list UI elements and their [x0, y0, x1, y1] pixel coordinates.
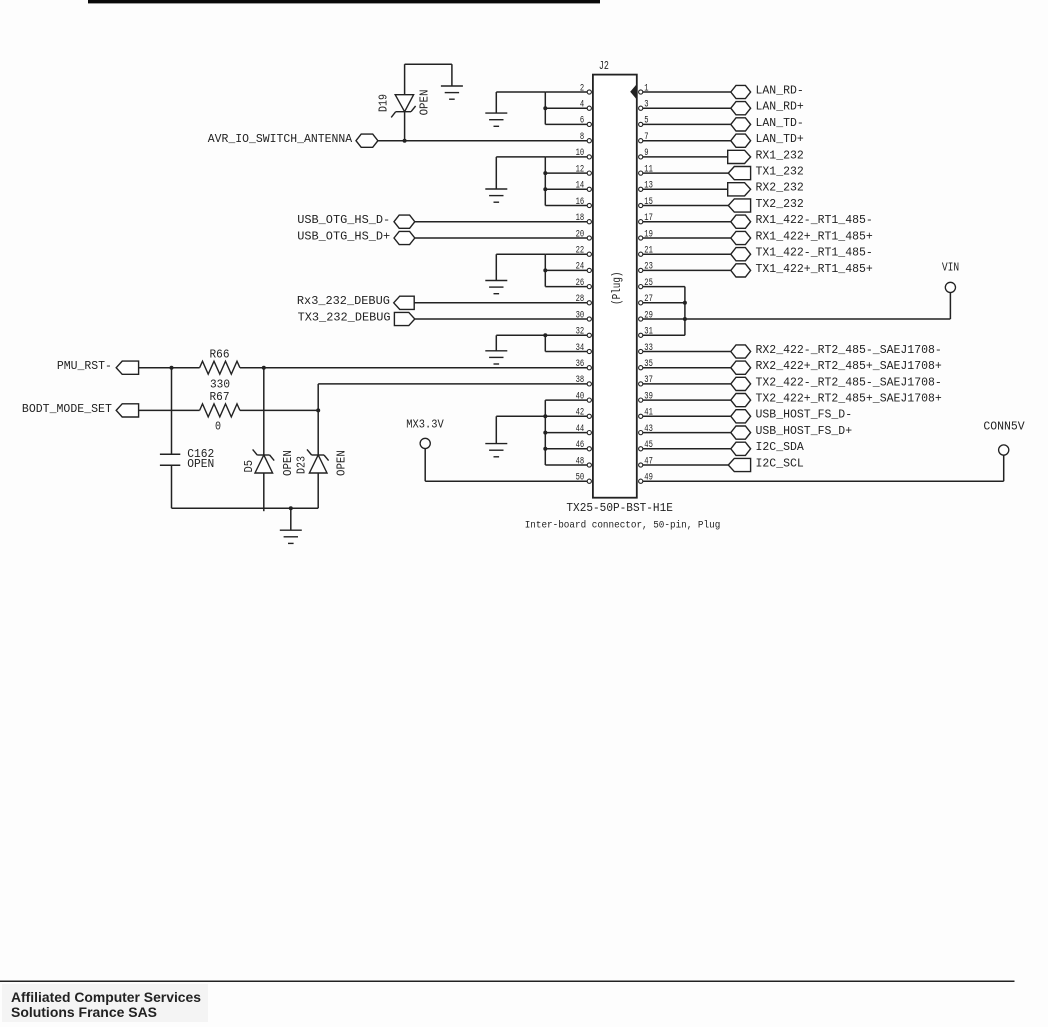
J2 pin 19 — [639, 229, 653, 240]
port I2C_SCL — [728, 458, 750, 471]
svg-text:USB_OTG_HS_D-: USB_OTG_HS_D- — [297, 213, 390, 227]
port TX1_422+_RT1_485+ — [731, 264, 751, 277]
wire BODT_MODE_SET to R67 — [139, 409, 200, 411]
J2 pin 8 — [580, 132, 592, 143]
wire PMU_RST- to R66 — [139, 367, 200, 369]
port USB_OTG_HS_D+ — [394, 231, 415, 244]
svg-text:TX1_232: TX1_232 — [756, 165, 804, 179]
wire pin 26 stub — [545, 286, 587, 288]
resistor R67 — [200, 404, 240, 417]
value 0 — [215, 419, 221, 433]
wire pin 12 stub — [545, 172, 587, 174]
wire pin 16 stub — [545, 205, 587, 207]
diode D23 — [307, 449, 329, 473]
title Solutions France SAS — [11, 1004, 157, 1020]
wire pin 17 to port RX1_422-_RT1_485- — [643, 221, 731, 223]
wire pin 21 to port TX1_422-_RT1_485- — [643, 253, 731, 255]
svg-text:LAN_TD-: LAN_TD- — [756, 116, 804, 130]
wire VIN bus to VIN — [685, 318, 951, 320]
svg-text:MX3.3V: MX3.3V — [406, 418, 444, 432]
ground GND-B — [485, 157, 507, 202]
junction bus E pin 42 — [543, 414, 547, 418]
ground GND-C — [485, 254, 507, 294]
J2 pin 44 — [576, 424, 592, 435]
connector J2 body — [593, 75, 637, 498]
junction bus E pin 46 — [543, 447, 547, 451]
port TX1_422-_RT1_485- — [731, 248, 751, 261]
J2 pin 27 — [639, 294, 653, 305]
label R67 — [210, 390, 230, 404]
J2 pin 34 — [576, 343, 592, 354]
wire pin 3 to port LAN_RD+ — [643, 107, 731, 109]
wire pin 27 stub to VIN bus — [643, 302, 685, 304]
svg-text:0: 0 — [215, 419, 221, 433]
label RX1_422+_RT1_485+ — [756, 229, 873, 243]
wire C162 top — [171, 368, 173, 455]
wire pin 10 stub — [545, 156, 587, 158]
wire pin 7 to port LAN_TD+ — [643, 140, 731, 142]
svg-text:RX1_422+_RT1_485+: RX1_422+_RT1_485+ — [756, 229, 873, 243]
svg-text:RX2_232: RX2_232 — [756, 181, 804, 195]
J2 pin 1 — [639, 83, 649, 94]
wire pin 5 to port LAN_TD- — [643, 123, 731, 125]
wire bus A to ground — [496, 91, 545, 93]
junction VIN bus pin 29 — [683, 317, 687, 321]
wire pin 44 stub — [545, 432, 587, 434]
port AVR_IO_SWITCH_ANTENNA — [356, 134, 378, 147]
J2 pin 10 — [576, 148, 592, 159]
label BODT_MODE_SET — [22, 402, 112, 416]
port RX1_422-_RT1_485- — [731, 215, 751, 228]
label D23 — [295, 456, 309, 474]
J2 pin 4 — [580, 100, 592, 111]
port PMU_RST- — [116, 361, 138, 374]
svg-text:PMU_RST-: PMU_RST- — [57, 359, 112, 373]
svg-text:LAN_RD-: LAN_RD- — [756, 83, 804, 97]
J2 pin 45 — [639, 440, 653, 451]
J2 pin 9 — [639, 148, 649, 159]
J2 pin 48 — [576, 456, 592, 467]
wire pin 33 to port RX2_422-_RT2_485-_SAEJ1708- — [643, 351, 731, 353]
J2 pin 18 — [576, 213, 592, 224]
svg-text:CONN5V: CONN5V — [983, 419, 1025, 433]
wire pin 45 to port I2C_SDA — [643, 448, 731, 450]
J2 pin 38 — [576, 375, 592, 386]
svg-text:J2: J2 — [599, 59, 609, 73]
port TX2_422+_RT2_485+_SAEJ1708+ — [731, 394, 751, 407]
wire bus B to ground — [496, 156, 545, 158]
J2 pin 23 — [639, 262, 653, 273]
gnd bus D vertical — [544, 335, 546, 351]
junction C162 tap — [170, 366, 174, 370]
label LAN_TD- — [756, 116, 804, 130]
label RX2_422-_RT2_485-_SAEJ1708- — [756, 343, 942, 357]
wire pin 32 stub — [545, 334, 587, 336]
svg-text:Inter-board connector, 50-pin,: Inter-board connector, 50-pin, Plug — [525, 520, 721, 532]
wire Rx3_232_DEBUG to pin 28 — [414, 302, 587, 304]
svg-text:VIN: VIN — [942, 261, 959, 275]
label D23 OPEN — [335, 450, 349, 476]
svg-text:Rx3_232_DEBUG: Rx3_232_DEBUG — [297, 294, 390, 308]
svg-text:AVR_IO_SWITCH_ANTENNA: AVR_IO_SWITCH_ANTENNA — [208, 132, 353, 146]
wire pin 48 stub — [545, 464, 587, 466]
svg-text:Solutions France SAS: Solutions France SAS — [11, 1004, 157, 1020]
label R66 — [210, 347, 230, 361]
wire riser to pin 38 — [318, 383, 587, 385]
wire bus C to ground — [496, 253, 545, 255]
refdes J2 — [599, 59, 609, 73]
wire pin 22 stub — [545, 253, 587, 255]
J2 pin 42 — [576, 408, 592, 419]
svg-text:RX1_422-_RT1_485-: RX1_422-_RT1_485- — [756, 213, 873, 227]
power CONN5V — [983, 419, 1025, 455]
VIN bus vertical — [684, 287, 686, 336]
J2 pin 24 — [576, 262, 592, 273]
svg-text:BODT_MODE_SET: BODT_MODE_SET — [22, 402, 112, 416]
wire ground rail — [172, 507, 319, 509]
label RX2_422+_RT2_485+_SAEJ1708+ — [756, 359, 942, 373]
junction bus A pin 4 — [543, 106, 547, 110]
wire pin 41 to port USB_HOST_FS_D- — [643, 415, 731, 417]
J2 pin 46 — [576, 440, 592, 451]
svg-text:Affiliated Computer Services: Affiliated Computer Services — [11, 989, 201, 1005]
resistor R66 — [200, 361, 240, 374]
J2 pin 32 — [576, 327, 592, 338]
wire USB_OTG_HS_D+ to pin 20 — [415, 237, 587, 239]
label USB_OTG_HS_D- — [297, 213, 390, 227]
svg-text:D5: D5 — [242, 460, 256, 473]
wire D23 anode to rail — [317, 473, 319, 508]
label D5 — [242, 460, 256, 473]
wire R67 to D23 riser — [240, 409, 318, 411]
power VIN — [942, 261, 959, 293]
svg-text:OPEN: OPEN — [418, 90, 432, 116]
junction VIN bus pin 27 — [683, 301, 687, 305]
junction bus B pin 12 — [543, 171, 547, 175]
label D5 OPEN — [281, 450, 295, 476]
gnd bus E vertical — [544, 400, 546, 465]
label TX2_232 — [756, 197, 804, 211]
svg-text:TX25-50P-BST-H1E: TX25-50P-BST-H1E — [566, 501, 673, 515]
ground GND-D19 — [441, 64, 463, 99]
J2 description Inter-board connector, 50-pin, Plug — [525, 520, 721, 532]
svg-text:TX1_422-_RT1_485-: TX1_422-_RT1_485- — [756, 246, 873, 260]
junction D19 anode tap — [403, 139, 407, 143]
junction D5 tap — [262, 366, 266, 370]
label TX2_422+_RT2_485+_SAEJ1708+ — [756, 392, 942, 406]
junction rail ground tee — [289, 506, 293, 510]
wire bus E to ground — [496, 415, 545, 417]
J2 pin 6 — [580, 116, 592, 127]
wire pin 1 to port LAN_RD- — [643, 91, 731, 93]
label USB_OTG_HS_D+ — [297, 229, 390, 243]
J2 pin 35 — [639, 359, 653, 370]
label RX1_232 — [756, 148, 804, 162]
label I2C_SDA — [756, 440, 805, 454]
svg-text:D19: D19 — [376, 94, 390, 112]
wire D5 anode to rail — [263, 473, 265, 511]
J2 pin 21 — [639, 246, 653, 257]
label Rx3_232_DEBUG — [297, 294, 390, 308]
svg-text:TX2_422-_RT2_485-_SAEJ1708-: TX2_422-_RT2_485-_SAEJ1708- — [756, 375, 942, 389]
J2 pin 17 — [639, 213, 653, 224]
J2 pin 29 — [639, 310, 653, 321]
junction bus C pin 24 — [543, 268, 547, 272]
wire pin 49 to CONN5V — [643, 455, 1004, 481]
wire pin 2 stub — [545, 91, 587, 93]
value 330 — [210, 377, 230, 391]
port TX3_232_DEBUG — [394, 312, 414, 325]
svg-text:TX2_422+_RT2_485+_SAEJ1708+: TX2_422+_RT2_485+_SAEJ1708+ — [756, 392, 942, 406]
svg-text:TX1_422+_RT1_485+: TX1_422+_RT1_485+ — [756, 262, 873, 276]
label D19 — [376, 94, 390, 112]
label C162 — [187, 448, 214, 461]
J2 pin 47 — [639, 456, 653, 467]
wire pin 25 stub to VIN bus — [643, 286, 685, 288]
junction bus D pin 32 — [543, 333, 547, 337]
J2 pin 40 — [576, 391, 592, 402]
J2 pin 5 — [639, 116, 649, 127]
label RX1_422-_RT1_485- — [756, 213, 873, 227]
svg-text:R66: R66 — [210, 347, 230, 361]
wire VIN stem — [949, 293, 951, 320]
diode D19 — [391, 95, 415, 118]
label LAN_TD+ — [756, 132, 804, 146]
wire pin 11 to port TX1_232 — [643, 172, 728, 174]
J2 pin 50 — [576, 473, 592, 484]
ground GND-D — [485, 335, 507, 364]
wire pin 47 to port I2C_SCL — [643, 464, 728, 466]
wire pin 15 to port TX2_232 — [643, 205, 728, 207]
port Rx3_232_DEBUG — [394, 296, 415, 309]
top border rule — [88, 0, 600, 3]
wire D5 cathode riser — [263, 368, 265, 455]
J2 pin 37 — [639, 375, 653, 386]
wire pin 9 to port RX1_232 — [643, 156, 728, 158]
J2 pin 31 — [639, 327, 653, 338]
port LAN_RD- — [731, 85, 751, 98]
junction bus B pin 14 — [543, 187, 547, 191]
J2 pin 15 — [639, 197, 653, 208]
svg-text:RX2_422+_RT2_485+_SAEJ1708+: RX2_422+_RT2_485+_SAEJ1708+ — [756, 359, 942, 373]
svg-text:R67: R67 — [210, 390, 230, 404]
port TX2_232 — [728, 199, 750, 212]
J2 pin 25 — [639, 278, 653, 289]
port BODT_MODE_SET — [116, 404, 138, 417]
svg-text:I2C_SCL: I2C_SCL — [756, 456, 804, 470]
J2 pin 11 — [639, 164, 653, 175]
J2 pin 28 — [576, 294, 592, 305]
J2 pin 14 — [576, 181, 592, 192]
junction bus E pin 44 — [543, 431, 547, 435]
J2 pin 13 — [639, 181, 653, 192]
label RX2_232 — [756, 181, 804, 195]
svg-text:RX1_232: RX1_232 — [756, 148, 804, 162]
ground GND-A — [485, 92, 507, 126]
J2 pin 22 — [576, 246, 592, 257]
label TX2_422-_RT2_485-_SAEJ1708- — [756, 375, 942, 389]
diode D5 — [253, 449, 275, 473]
J2 pin 39 — [639, 391, 653, 402]
title block background — [2, 984, 208, 1022]
J2 pin 2 — [580, 83, 592, 94]
wire pin 14 stub — [545, 188, 587, 190]
gnd bus B vertical — [544, 157, 546, 206]
port RX2_422+_RT2_485+_SAEJ1708+ — [731, 361, 751, 374]
svg-text:USB_HOST_FS_D-: USB_HOST_FS_D- — [756, 408, 853, 422]
port TX1_232 — [728, 167, 750, 180]
J2 part number TX25-50P-BST-H1E — [566, 501, 673, 515]
J2 (Plug) label — [610, 272, 624, 305]
svg-text:(Plug): (Plug) — [610, 272, 624, 305]
wire riser pin 38 to D23 — [317, 384, 319, 455]
port TX2_422-_RT2_485-_SAEJ1708- — [731, 377, 751, 390]
J2 pin 43 — [639, 424, 653, 435]
wire pin 34 stub — [545, 351, 587, 353]
port USB_HOST_FS_D- — [731, 410, 751, 423]
wire USB_OTG_HS_D- to pin 18 — [415, 221, 587, 223]
label TX1_232 — [756, 165, 804, 179]
label PMU_RST- — [57, 359, 112, 373]
label LAN_RD- — [756, 83, 804, 97]
J2 pin 49 — [639, 473, 653, 484]
wire AVR_IO_SWITCH_ANTENNA to pin 8 — [378, 140, 587, 142]
capacitor C162 — [160, 454, 180, 465]
wire pin 37 to port TX2_422-_RT2_485-_SAEJ1708- — [643, 383, 731, 385]
wire pin 29 stub to VIN bus — [643, 318, 685, 320]
svg-text:OPEN: OPEN — [187, 458, 214, 471]
wire pin 13 to port RX2_232 — [643, 188, 728, 190]
svg-text:USB_OTG_HS_D+: USB_OTG_HS_D+ — [297, 229, 390, 243]
J2 pin 12 — [576, 164, 592, 175]
port LAN_TD- — [731, 118, 751, 131]
port RX2_232 — [728, 183, 751, 196]
label I2C_SCL — [756, 456, 804, 470]
svg-text:RX2_422-_RT2_485-_SAEJ1708-: RX2_422-_RT2_485-_SAEJ1708- — [756, 343, 942, 357]
wire D19 cathode to antenna net — [404, 112, 406, 141]
svg-text:TX2_232: TX2_232 — [756, 197, 804, 211]
label TX1_422-_RT1_485- — [756, 246, 873, 260]
junction R67 riser — [316, 408, 320, 412]
label TX1_422+_RT1_485+ — [756, 262, 873, 276]
svg-text:OPEN: OPEN — [281, 450, 295, 476]
svg-text:TX3_232_DEBUG: TX3_232_DEBUG — [298, 310, 391, 324]
J2 pin 1 polarity marker — [630, 84, 637, 100]
J2 pin 7 — [639, 132, 649, 143]
wire MX3.3V to pin 50 — [425, 449, 587, 482]
J2 pin 33 — [639, 343, 653, 354]
power MX3.3V — [406, 418, 444, 449]
port RX2_422-_RT2_485-_SAEJ1708- — [731, 345, 751, 358]
wire D19 anode up and over — [405, 64, 452, 95]
J2 pin 41 — [639, 408, 653, 419]
svg-text:LAN_TD+: LAN_TD+ — [756, 132, 804, 146]
wire pin 46 stub — [545, 448, 587, 450]
label AVR_IO_SWITCH_ANTENNA — [208, 132, 353, 146]
J2 pin 36 — [576, 359, 592, 370]
port RX1_232 — [728, 150, 751, 163]
title block rule — [0, 980, 1015, 982]
wire R66 to pin 36 — [240, 367, 587, 369]
wire C162 bottom to rail — [171, 465, 173, 508]
label USB_HOST_FS_D+ — [756, 424, 853, 438]
wire pin 40 stub — [545, 399, 587, 401]
ground GND-E — [485, 416, 507, 457]
port I2C_SDA — [731, 442, 751, 455]
wire pin 43 to port USB_HOST_FS_D+ — [643, 432, 731, 434]
label TX3_232_DEBUG — [298, 310, 391, 324]
wire pin 35 to port RX2_422+_RT2_485+_SAEJ1708+ — [643, 367, 731, 369]
wire pin 24 stub — [545, 269, 587, 271]
wire pin 42 stub — [545, 415, 587, 417]
label USB_HOST_FS_D- — [756, 408, 853, 422]
wire pin 39 to port TX2_422+_RT2_485+_SAEJ1708+ — [643, 399, 731, 401]
wire pin 31 stub to VIN bus — [643, 334, 685, 336]
wire bus D to ground — [496, 334, 545, 336]
wire TX3_232_DEBUG to pin 30 — [415, 318, 587, 320]
svg-text:D23: D23 — [295, 456, 309, 474]
label LAN_RD+ — [756, 100, 804, 114]
port USB_HOST_FS_D+ — [731, 426, 751, 439]
J2 pin 30 — [576, 310, 592, 321]
J2 pin 3 — [639, 100, 649, 111]
svg-text:I2C_SDA: I2C_SDA — [756, 440, 805, 454]
port LAN_RD+ — [731, 102, 751, 115]
svg-text:OPEN: OPEN — [335, 450, 349, 476]
ground GND-rail — [280, 508, 302, 543]
wire pin 4 stub — [545, 107, 587, 109]
gnd bus A vertical — [544, 92, 546, 124]
label D19 OPEN — [418, 90, 432, 116]
svg-text:LAN_RD+: LAN_RD+ — [756, 100, 804, 114]
label C162 OPEN — [187, 458, 214, 471]
port LAN_TD+ — [731, 134, 751, 147]
wire pin 6 stub — [545, 123, 587, 125]
gnd bus C vertical — [544, 254, 546, 286]
wire pin 19 to port RX1_422+_RT1_485+ — [643, 237, 731, 239]
J2 pin 20 — [576, 229, 592, 240]
port RX1_422+_RT1_485+ — [731, 231, 751, 244]
svg-text:USB_HOST_FS_D+: USB_HOST_FS_D+ — [756, 424, 853, 438]
wire pin 23 to port TX1_422+_RT1_485+ — [643, 269, 731, 271]
title Affiliated Computer Services — [11, 989, 201, 1005]
J2 pin 26 — [576, 278, 592, 289]
port USB_OTG_HS_D- — [394, 215, 415, 228]
J2 pin 16 — [576, 197, 592, 208]
